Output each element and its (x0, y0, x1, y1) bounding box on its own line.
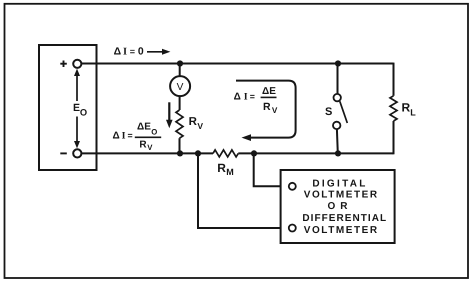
node F (switch branch bottom junction) (335, 150, 341, 156)
voltage source box E0 (39, 45, 97, 170)
svg-text:ΔE: ΔE (262, 86, 276, 97)
svg-text:DIGITAL: DIGITAL (312, 179, 367, 190)
svg-text:V: V (197, 121, 203, 131)
svg-text:ΔI= 0: ΔI= 0 (114, 46, 144, 57)
resistor RL (390, 96, 397, 121)
svg-text:R: R (217, 161, 226, 175)
svg-text:ΔE: ΔE (137, 122, 151, 133)
bottom wire left segment (81, 152, 213, 154)
svg-text:R: R (263, 101, 271, 113)
DVM text (302, 179, 387, 237)
node E (DVM high tap junction) (251, 150, 257, 156)
current arrow down (166, 102, 173, 128)
wire RV to bottom (179, 138, 181, 153)
svg-text:L: L (410, 107, 416, 117)
top wire (81, 63, 393, 65)
E0 arrow (double headed) (74, 69, 80, 149)
svg-text:ΔI=: ΔI= (234, 91, 255, 102)
svg-text:OR: OR (328, 201, 353, 212)
svg-text:DIFFERENTIAL: DIFFERENTIAL (302, 213, 387, 224)
svg-text:O: O (151, 128, 157, 137)
svg-text:VOLTMETER: VOLTMETER (304, 225, 379, 236)
wire switch to bottom (336, 129, 339, 153)
node B (junction top of switch branch) (335, 60, 341, 66)
resistor RM (213, 150, 238, 157)
resistor RV (176, 110, 183, 138)
svg-text:ΔI=: ΔI= (113, 131, 133, 142)
label dI = dE/RV (loop) (234, 86, 278, 115)
loop arrow (236, 81, 296, 141)
svg-text:VOLTMETER: VOLTMETER (304, 189, 379, 200)
switch S (333, 94, 347, 129)
svg-text:S: S (325, 106, 332, 118)
wire to switch (337, 64, 339, 95)
wire right branch top (393, 63, 395, 96)
svg-text:V: V (272, 106, 278, 115)
bottom wire right segment (238, 152, 393, 154)
DVM terminal low (289, 225, 296, 232)
node C (RV branch bottom junction) (177, 150, 183, 156)
svg-text:R: R (139, 139, 147, 150)
arrow dI=0 (147, 49, 170, 55)
svg-text:R: R (189, 116, 198, 128)
minus sign (60, 152, 67, 154)
voltmeter V (170, 76, 190, 96)
svg-text:V: V (147, 143, 153, 152)
svg-text:M: M (226, 167, 234, 177)
svg-text:O: O (80, 107, 87, 117)
label dI = dE0/RV (113, 122, 162, 152)
node A (junction top of RV branch) (177, 60, 183, 66)
plus sign (60, 61, 67, 68)
node D (DVM low tap junction) (195, 150, 201, 156)
svg-text:V: V (177, 82, 184, 93)
wire right branch bottom (393, 121, 395, 154)
wire voltmeter to RV (179, 96, 181, 110)
terminal + (node) (73, 60, 81, 68)
wire DVM low tap (198, 153, 289, 228)
DVM box (281, 170, 395, 243)
wire DVM high tap (254, 153, 289, 186)
svg-text:R: R (402, 100, 411, 114)
DVM terminal high (289, 183, 296, 190)
terminal - (node) (73, 149, 81, 157)
wire to voltmeter (179, 64, 181, 77)
